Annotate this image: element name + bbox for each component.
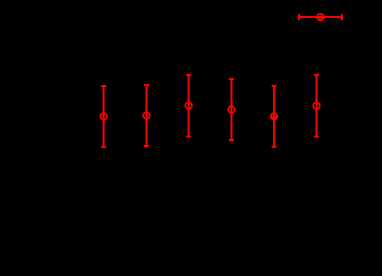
errorbar point 4 <box>228 79 235 140</box>
errorbar point 6 <box>313 75 320 137</box>
errorbar point 2 <box>143 85 150 146</box>
errorbar point 3 <box>185 75 192 136</box>
errorbar point 1 <box>100 86 107 147</box>
errorbar point 5 (marker with filled lower wedge) <box>271 86 278 147</box>
legend sample (horizontal errorbar with marker) <box>299 14 342 21</box>
